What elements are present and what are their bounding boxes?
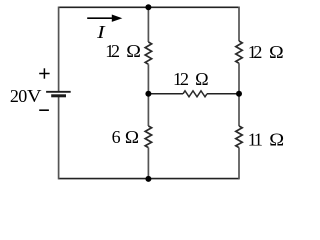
wire left lower xyxy=(58,96,60,179)
resistor R4 11ohm right-bottom zigzag xyxy=(236,126,242,148)
battery V1 short thick plate xyxy=(51,94,66,97)
svg-text:Ω: Ω xyxy=(269,130,284,150)
minus sign xyxy=(39,109,49,111)
wire top xyxy=(59,6,239,8)
svg-text:2: 2 xyxy=(253,42,262,62)
wire middle branch center xyxy=(147,64,149,126)
node top junction xyxy=(145,4,151,10)
svg-text:Ω: Ω xyxy=(195,69,209,89)
svg-text:6: 6 xyxy=(112,127,121,147)
wire middle horizontal right xyxy=(207,93,239,95)
svg-text:2: 2 xyxy=(180,69,189,89)
wire right upper xyxy=(238,7,240,42)
node bottom junction xyxy=(145,176,151,182)
wire middle branch lower xyxy=(147,148,149,179)
node right junction xyxy=(236,91,242,97)
svg-text:0: 0 xyxy=(18,86,27,106)
wire right lower xyxy=(238,148,240,180)
wire right middle xyxy=(238,63,240,126)
resistor R2 12ohm right-top zigzag xyxy=(236,41,242,63)
svg-text:Ω: Ω xyxy=(126,41,141,61)
svg-text:I: I xyxy=(96,22,106,42)
svg-text:V: V xyxy=(27,86,42,106)
svg-text:Ω: Ω xyxy=(269,42,284,62)
node middle junction xyxy=(145,91,151,97)
svg-text:1: 1 xyxy=(254,130,263,150)
current arrow I xyxy=(87,17,114,19)
resistor R3 12ohm horizontal zigzag xyxy=(183,91,207,97)
wire bottom xyxy=(59,178,239,180)
resistor R5 6ohm middle-bottom zigzag xyxy=(145,126,151,148)
wire middle horizontal left xyxy=(148,93,183,95)
svg-text:Ω: Ω xyxy=(125,127,139,147)
plus sign xyxy=(39,68,49,78)
svg-text:2: 2 xyxy=(111,41,120,61)
wire left upper xyxy=(58,7,60,92)
battery V1 long plate xyxy=(46,91,71,93)
resistor R1 12ohm middle-top zigzag xyxy=(145,42,151,64)
wire middle branch upper xyxy=(147,7,149,42)
